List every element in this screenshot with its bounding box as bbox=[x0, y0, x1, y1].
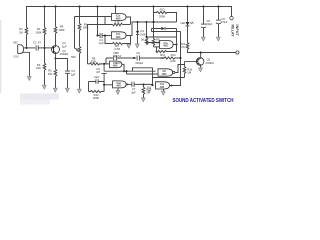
wire wiper to gate1 input bbox=[75, 16, 112, 18]
svg-text:.0033µF: .0033µF bbox=[135, 62, 144, 65]
node battery + terminal bbox=[230, 16, 233, 19]
wire emitter to C3 bbox=[56, 59, 68, 71]
svg-text:470µF: 470µF bbox=[221, 21, 228, 24]
ground (R5) bbox=[53, 88, 57, 92]
svg-text:.047: .047 bbox=[96, 71, 101, 74]
svg-text:50K: 50K bbox=[71, 55, 76, 59]
wire gateA output riser bbox=[122, 64, 124, 71]
capacitor C1 bbox=[36, 45, 52, 50]
LED bbox=[187, 7, 189, 43]
diode D2 bbox=[161, 27, 165, 30]
svg-text:200K: 200K bbox=[93, 96, 99, 100]
svg-text:100K: 100K bbox=[35, 30, 41, 34]
svg-text:10K: 10K bbox=[156, 41, 161, 45]
op-amp U1a bbox=[112, 7, 127, 21]
capacitor C4 bbox=[100, 33, 111, 38]
wire gate2 output riser bbox=[131, 22, 177, 36]
diode D1 bbox=[137, 22, 139, 44]
svg-text:1M: 1M bbox=[141, 39, 144, 42]
node R12 tap bbox=[142, 83, 144, 85]
svg-text:IC1f: IC1f bbox=[162, 71, 166, 73]
op-amp U1d2 bbox=[113, 81, 127, 88]
wire y36.5 bbox=[147, 36, 177, 38]
resistor R15 bbox=[186, 43, 189, 53]
svg-text:R14: R14 bbox=[171, 53, 176, 57]
feedback loop gate6 bbox=[153, 78, 181, 86]
ground (R7) bbox=[77, 89, 81, 93]
junction dots on top rail bbox=[43, 5, 219, 7]
ground (C3) bbox=[65, 88, 69, 92]
svg-text:4.7K: 4.7K bbox=[180, 46, 185, 49]
wire rail drop to C4 bbox=[98, 7, 100, 36]
wire y21 junction dots bbox=[136, 21, 138, 23]
capacitor C9 bbox=[216, 7, 221, 37]
resistor R2 bbox=[43, 7, 46, 64]
transistor Q2 bbox=[185, 53, 204, 68]
resistor R12 bbox=[142, 85, 145, 98]
resistor R5 bbox=[54, 59, 57, 88]
feedback loop gate3 + resistor R11 bbox=[156, 45, 177, 53]
svg-text:Q2: Q2 bbox=[207, 58, 211, 62]
svg-text:10K: 10K bbox=[36, 66, 41, 70]
svg-text:ECM: ECM bbox=[13, 56, 18, 59]
wire nand in2 bbox=[127, 71, 156, 74]
svg-text:100K: 100K bbox=[58, 28, 64, 32]
page edge bar bbox=[0, 20, 1, 93]
svg-text:C6: C6 bbox=[136, 51, 140, 55]
svg-text:MIC: MIC bbox=[13, 40, 18, 44]
svg-text:2µF: 2µF bbox=[131, 90, 136, 94]
capacitor C7 bbox=[126, 82, 152, 87]
capacitor C6 bbox=[137, 56, 164, 61]
svg-text:4.7M: 4.7M bbox=[115, 20, 120, 23]
svg-text:C1 .47: C1 .47 bbox=[33, 41, 41, 45]
ground (loop2) bbox=[128, 43, 130, 46]
resistor R7b feedback loop gate1 bbox=[105, 17, 131, 26]
op-amp U1d bbox=[156, 82, 170, 89]
ground (C9) bbox=[216, 37, 220, 41]
transistor Q1 bbox=[52, 46, 60, 59]
resistor R16 bbox=[181, 65, 186, 78]
svg-text:SOUND ACTIVATED SWITCH: SOUND ACTIVATED SWITCH bbox=[173, 98, 234, 104]
svg-text:500K: 500K bbox=[91, 61, 97, 64]
svg-text:RELAY: RELAY bbox=[231, 25, 235, 38]
resistor R1 bbox=[25, 7, 28, 48]
ground (Q2) bbox=[199, 68, 203, 72]
svg-text:200K: 200K bbox=[159, 14, 165, 18]
resistor R10 bbox=[89, 82, 105, 93]
resistor R13 bbox=[154, 11, 177, 22]
resistor R9 bbox=[152, 7, 159, 47]
wire long vertical bus bbox=[180, 32, 182, 78]
wire jog to gate6 loop bbox=[133, 68, 153, 78]
svg-text:.1µF: .1µF bbox=[98, 41, 104, 45]
node gate5 input bbox=[103, 84, 105, 86]
svg-text:1M: 1M bbox=[147, 89, 150, 92]
resistor R10b bbox=[145, 22, 159, 45]
capacitor C5m bbox=[114, 56, 117, 61]
resistor R6 bbox=[78, 7, 81, 47]
svg-text:C5: C5 bbox=[113, 51, 117, 55]
feedback loop gate2 bbox=[105, 36, 131, 45]
ground (U1d) bbox=[163, 89, 165, 91]
node B bbox=[43, 47, 45, 49]
node relay output terminal bbox=[236, 51, 239, 54]
wire signal bus bbox=[106, 58, 136, 64]
capacitor C3 bbox=[65, 71, 70, 88]
node A mic junction bbox=[25, 47, 27, 49]
svg-text:10K: 10K bbox=[48, 72, 53, 76]
ground (mic) bbox=[27, 77, 31, 81]
op-amp U1b bbox=[112, 32, 127, 39]
capacitor C8 bbox=[201, 7, 206, 37]
svg-text:2N3904: 2N3904 bbox=[206, 62, 215, 65]
wire top rail bbox=[27, 7, 232, 17]
ground (R3) bbox=[42, 85, 46, 89]
svg-text:LED: LED bbox=[181, 22, 186, 25]
resistor R14 bbox=[164, 57, 180, 59]
op-amp U2a bbox=[160, 41, 174, 49]
potentiometer R7 bbox=[75, 17, 81, 89]
svg-text:100K: 100K bbox=[170, 60, 176, 63]
capacitor C6 low loop bbox=[89, 79, 105, 91]
resistor R4 bbox=[54, 7, 57, 46]
watermark bbox=[20, 94, 59, 105]
wire nand output to Q2 base bbox=[175, 65, 185, 73]
ground (C8) bbox=[201, 37, 205, 41]
svg-text:.1µF: .1µF bbox=[61, 44, 67, 48]
wire switched rail bbox=[188, 52, 236, 54]
ground (R12) bbox=[141, 98, 145, 102]
nand U2b bbox=[156, 69, 175, 76]
resistor R3 bbox=[43, 63, 46, 85]
svg-text:100µF: 100µF bbox=[206, 23, 213, 26]
svg-text:2N3904: 2N3904 bbox=[60, 53, 69, 56]
svg-text:.0047: .0047 bbox=[115, 62, 121, 65]
wire nand in1 bbox=[104, 70, 155, 72]
op-amp U1c bbox=[110, 61, 122, 68]
svg-text:INPUT: INPUT bbox=[235, 25, 239, 37]
svg-text:1µF: 1µF bbox=[71, 72, 76, 76]
node Q1 emitter bbox=[54, 57, 56, 59]
wire loop1 down-left to R8 bbox=[88, 25, 106, 64]
wire y28 with diode D2 bbox=[152, 29, 181, 52]
ground (U1d2) bbox=[117, 88, 119, 90]
capacitor C5b bbox=[102, 64, 107, 82]
resistor R8 bbox=[88, 63, 110, 65]
ground (D1) bbox=[135, 44, 139, 48]
svg-text:.01µF: .01µF bbox=[94, 76, 100, 79]
svg-text:R13: R13 bbox=[160, 7, 165, 11]
